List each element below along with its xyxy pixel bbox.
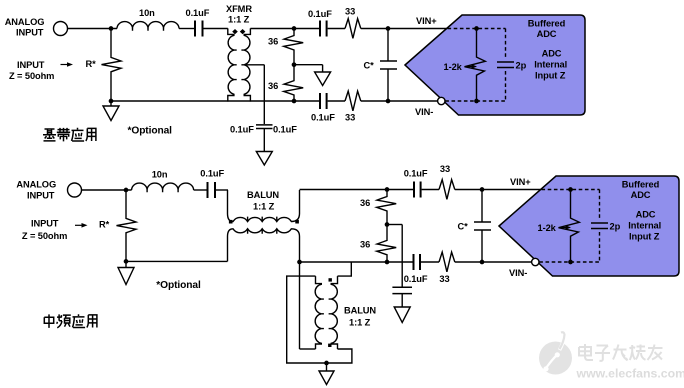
svg-text:Z = 50ohm: Z = 50ohm: [22, 231, 67, 241]
svg-text:INPUT: INPUT: [31, 218, 59, 228]
svg-text:0.1uF: 0.1uF: [404, 169, 428, 179]
svg-text:INPUT: INPUT: [27, 190, 55, 200]
svg-text:INPUT: INPUT: [17, 60, 45, 70]
svg-text:0.1uF: 0.1uF: [404, 274, 428, 284]
svg-text:www.elecfans.com: www.elecfans.com: [576, 367, 684, 381]
svg-text:36: 36: [360, 239, 370, 249]
svg-text:33: 33: [440, 164, 450, 174]
svg-text:1:1 Z: 1:1 Z: [253, 202, 275, 212]
svg-text:XFMR: XFMR: [226, 4, 252, 14]
svg-text:ANALOG: ANALOG: [5, 17, 45, 27]
svg-text:33: 33: [345, 7, 355, 17]
svg-text:10n: 10n: [152, 170, 168, 180]
svg-text:0.1uF: 0.1uF: [273, 125, 297, 135]
svg-text:*Optional: *Optional: [128, 126, 173, 137]
svg-text:1:1 Z: 1:1 Z: [349, 318, 371, 328]
svg-text:*Optional: *Optional: [156, 280, 201, 291]
svg-text:36: 36: [360, 198, 370, 208]
svg-text:R*: R*: [86, 59, 97, 69]
svg-text:0.1uF: 0.1uF: [230, 125, 254, 135]
svg-text:33: 33: [345, 113, 355, 123]
svg-text:1:1 Z: 1:1 Z: [228, 14, 250, 24]
svg-text:Z = 50ohm: Z = 50ohm: [9, 71, 54, 81]
svg-text:33: 33: [439, 274, 449, 284]
svg-text:R*: R*: [99, 219, 110, 229]
svg-text:10n: 10n: [139, 8, 155, 18]
svg-text:0.1uF: 0.1uF: [308, 9, 332, 19]
svg-text:36: 36: [268, 37, 278, 47]
svg-text:0.1uF: 0.1uF: [200, 168, 224, 178]
svg-text:0.1uF: 0.1uF: [311, 113, 335, 123]
svg-text:0.1uF: 0.1uF: [186, 8, 210, 18]
svg-text:INPUT: INPUT: [16, 27, 44, 37]
svg-text:BALUN: BALUN: [344, 306, 376, 316]
svg-text:BALUN: BALUN: [247, 190, 279, 200]
svg-text:36: 36: [268, 81, 278, 91]
svg-text:ANALOG: ANALOG: [16, 179, 56, 189]
